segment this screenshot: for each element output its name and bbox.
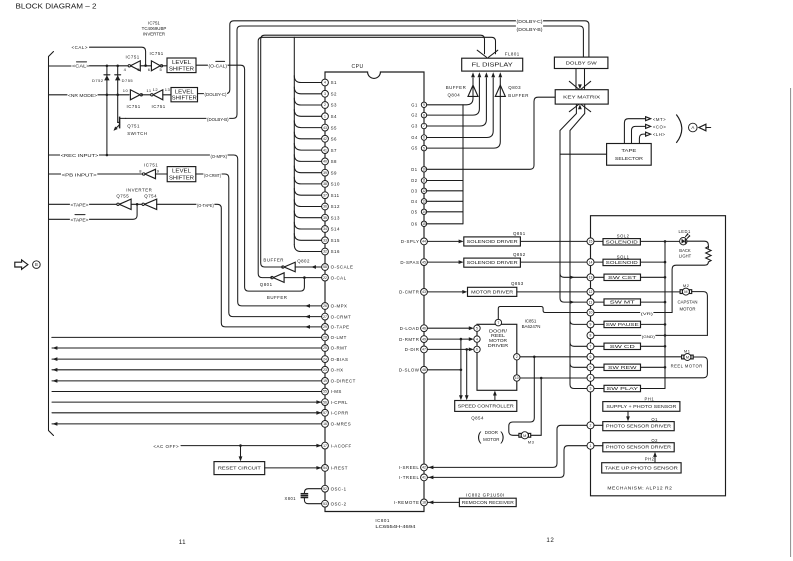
- pin S1: [322, 79, 329, 86]
- net label O-CRMT: [203, 171, 221, 178]
- svg-text:52: 52: [323, 487, 327, 491]
- svg-text:25: 25: [323, 346, 327, 350]
- arrow into solenoid driver 1: [459, 240, 464, 244]
- pin S11: [322, 192, 329, 199]
- wire pin1 to Q2: [594, 445, 603, 447]
- svg-text:IC802 GP1U50I: IC802 GP1U50I: [466, 493, 505, 498]
- mech pin 14: [587, 259, 594, 266]
- svg-text:3: 3: [137, 67, 140, 72]
- svg-text:S8: S8: [331, 159, 337, 164]
- net TAPE wire: [49, 203, 119, 205]
- svg-text:FL801: FL801: [505, 51, 520, 56]
- wire inv2 to level shifter: [162, 65, 167, 67]
- wire inv1 to node: [140, 65, 151, 67]
- svg-text:SW CD: SW CD: [610, 344, 635, 349]
- junction D-DIR speed: [465, 348, 468, 351]
- svg-text:LEVEL: LEVEL: [172, 60, 191, 66]
- junction SW CD common: [664, 345, 667, 348]
- svg-text:SOLENOID: SOLENOID: [606, 239, 638, 244]
- svg-text:(DOLBY-B): (DOLBY-B): [517, 27, 544, 32]
- svg-text:(O-TAPE): (O-TAPE): [197, 203, 214, 208]
- svg-text:D752: D752: [92, 78, 104, 83]
- wire D4 stub: [427, 200, 463, 202]
- svg-text:6: 6: [590, 355, 592, 359]
- svg-text:44: 44: [422, 240, 426, 244]
- wire SW CD to common: [641, 345, 666, 347]
- svg-text:PH1: PH1: [645, 396, 655, 401]
- diode D755: [115, 75, 121, 81]
- wire S12 bus stub: [294, 200, 321, 207]
- svg-text:47: 47: [422, 348, 426, 352]
- svg-text:Q751: Q751: [127, 123, 140, 128]
- svg-text:43: 43: [422, 290, 426, 294]
- svg-text:7: 7: [497, 321, 499, 325]
- arrow I-SREEL in: [428, 466, 433, 470]
- buffer Q804: [468, 85, 478, 96]
- wire G/D bus vertical: [462, 105, 464, 224]
- arrow G5 into FL display: [498, 72, 502, 77]
- svg-text:Q854: Q854: [471, 415, 484, 420]
- arrow O-CRMT out: [305, 315, 310, 319]
- net label GND: [641, 332, 655, 339]
- svg-text:14: 14: [589, 260, 593, 264]
- net label O-MPX: [210, 152, 228, 159]
- arrow MT: [646, 117, 651, 121]
- wire left bus row y391.5: [52, 391, 322, 393]
- junction SOL1 supply: [664, 261, 667, 264]
- wire D-SLOW to speed controller: [427, 369, 461, 371]
- mech pin 9: [587, 321, 594, 328]
- pin D1: [421, 167, 426, 172]
- svg-text:O-TAPE: O-TAPE: [331, 325, 350, 330]
- pin S3: [322, 102, 329, 109]
- svg-text:5: 5: [423, 146, 425, 150]
- mech pin 10: [587, 309, 594, 316]
- svg-text:<TAPE>: <TAPE>: [71, 203, 89, 208]
- wire PH1 to Q1: [627, 411, 629, 417]
- mech pin 1: [587, 442, 594, 449]
- svg-text:O-LMT: O-LMT: [331, 335, 347, 340]
- svg-text:REMOCON RECEIVER: REMOCON RECEIVER: [462, 500, 514, 505]
- svg-text:IC751: IC751: [152, 104, 166, 109]
- svg-text:I-CPRL: I-CPRL: [331, 400, 348, 405]
- remocon receiver IC802: [459, 498, 516, 506]
- off-page connector arrow A: [699, 124, 711, 131]
- net O-TAPE wire: [157, 204, 322, 327]
- wire S7 bus stub: [294, 143, 321, 150]
- svg-text:B: B: [35, 262, 38, 267]
- svg-text:BUFFER: BUFFER: [263, 257, 284, 262]
- svg-text:S15: S15: [331, 238, 340, 243]
- svg-text:S12: S12: [331, 204, 340, 209]
- wire O-SCALE to buffer: [295, 266, 321, 268]
- svg-text:LEVEL: LEVEL: [172, 169, 191, 175]
- pin O-LMT: [322, 334, 329, 341]
- wire IC851 pin7 to mech pin10: [498, 307, 587, 320]
- svg-text:D3: D3: [411, 188, 417, 193]
- svg-text:12: 12: [546, 537, 554, 544]
- bus arrow wing left: [477, 50, 487, 57]
- wire SW PLAY to common: [641, 388, 666, 390]
- svg-text:SW PAUSE: SW PAUSE: [606, 322, 639, 327]
- svg-text:SOL1: SOL1: [617, 254, 630, 259]
- svg-text:BLOCK DIAGRAM – 2: BLOCK DIAGRAM – 2: [16, 2, 97, 11]
- svg-text:D1: D1: [411, 167, 417, 172]
- wire key bus to tape selector: [560, 153, 607, 155]
- node B circle: [33, 261, 41, 269]
- pin I-REST: [322, 465, 329, 472]
- junction AC OFF reset: [239, 444, 242, 447]
- svg-text:29: 29: [323, 325, 327, 329]
- IC851 pin 10: [514, 375, 520, 381]
- wire to reset circuit: [240, 446, 242, 457]
- pin D2: [421, 178, 426, 183]
- svg-text:SHIFTER: SHIFTER: [169, 175, 194, 181]
- wire remocon to I-REMOTE: [428, 501, 459, 503]
- arrow I-TREEL in: [428, 476, 433, 480]
- svg-text:D4: D4: [411, 199, 417, 204]
- svg-text:S16: S16: [331, 249, 340, 254]
- svg-text:LEVEL: LEVEL: [175, 89, 194, 95]
- wire pin9 to SW PAUSE: [594, 323, 604, 325]
- wire pin5 to SW REW: [594, 366, 604, 368]
- pin D6: [421, 221, 426, 226]
- svg-text:2: 2: [590, 424, 592, 428]
- wire G1 riser: [427, 78, 473, 105]
- arrow into solenoid driver 2: [459, 260, 464, 264]
- svg-text:1: 1: [590, 444, 592, 448]
- junction SW PAUSE common: [664, 323, 667, 326]
- wire dolby sw to key matrix b: [584, 69, 586, 90]
- svg-text:35: 35: [323, 216, 327, 220]
- svg-text:MOTOR: MOTOR: [680, 307, 696, 312]
- backlight caption: [679, 248, 692, 259]
- FL display FL801: [462, 58, 523, 71]
- wire key scan B branch pin5: [570, 363, 587, 367]
- svg-text:SW REW: SW REW: [608, 365, 637, 370]
- arrow into motor driver: [462, 290, 467, 294]
- svg-text:D755: D755: [122, 78, 134, 83]
- scan edge line: [790, 88, 792, 557]
- svg-text:46: 46: [422, 326, 426, 330]
- svg-text:BUFFER: BUFFER: [446, 85, 467, 90]
- svg-text:<PB INPUT>: <PB INPUT>: [62, 173, 98, 178]
- pin O-CAL: [322, 274, 329, 281]
- wire tape selector MT: [624, 119, 645, 144]
- svg-text:(O-CRMT): (O-CRMT): [204, 173, 222, 178]
- arrow CO: [646, 124, 651, 128]
- wire S10 bus stub: [294, 177, 321, 184]
- svg-text:DOOR: DOOR: [485, 430, 498, 435]
- pin O-MRES: [322, 421, 329, 428]
- svg-text:53: 53: [323, 502, 327, 506]
- wire S15 bus stub: [294, 234, 321, 241]
- photo sensor driver Q1: [603, 422, 674, 431]
- svg-text:G4: G4: [411, 135, 418, 140]
- svg-text:54: 54: [323, 466, 327, 470]
- svg-text:M: M: [684, 289, 687, 294]
- wire solenoid driver 1 to pin15: [520, 240, 587, 242]
- arrow I-CPRR in: [316, 411, 321, 415]
- wire S6 bus stub: [294, 132, 321, 139]
- svg-text:G1: G1: [411, 102, 418, 107]
- mechanism enclosure: [591, 216, 726, 496]
- svg-text:1: 1: [324, 115, 326, 119]
- mech pin 8: [587, 332, 594, 339]
- svg-text:A: A: [691, 125, 694, 130]
- pin I-SREEL: [421, 464, 428, 471]
- junction REC D752: [106, 154, 109, 157]
- pin D-CMTR: [421, 289, 428, 296]
- net label VR: [640, 309, 653, 316]
- svg-text:<TAPE>: <TAPE>: [71, 217, 89, 222]
- svg-text:M1: M1: [684, 349, 691, 354]
- pin I-TREEL: [421, 474, 428, 481]
- pin I-MS: [322, 388, 329, 395]
- svg-text:MOTOR DRIVER: MOTOR DRIVER: [471, 289, 513, 294]
- wire pin12 to capstan: [594, 291, 680, 293]
- svg-text:10: 10: [123, 88, 129, 93]
- svg-text:12: 12: [422, 189, 426, 193]
- svg-text:3: 3: [590, 387, 592, 391]
- wire inv3 to inv4: [141, 94, 151, 96]
- svg-text:D5: D5: [411, 209, 417, 214]
- wire SOL2 to LED1: [640, 240, 679, 242]
- svg-text:42: 42: [323, 137, 327, 141]
- arrow scan pin13: [570, 275, 575, 279]
- svg-text:O-RMT: O-RMT: [331, 346, 348, 351]
- IC851 pin 4: [474, 336, 480, 342]
- svg-text:34: 34: [323, 227, 327, 231]
- pin O-RMT: [322, 345, 329, 352]
- svg-text:SOLENOID DRIVER: SOLENOID DRIVER: [467, 260, 518, 265]
- wire left bus row y369.8: [52, 369, 322, 371]
- node label CAL-bar: [71, 61, 90, 69]
- svg-text:<AC OFF>: <AC OFF>: [153, 444, 179, 449]
- wire IC851 pin10 to mech pin4: [520, 377, 587, 379]
- pin S4: [322, 113, 329, 120]
- mech pin 5: [587, 364, 594, 371]
- pin O-MPX: [322, 303, 329, 310]
- node A circle: [689, 123, 698, 132]
- pin O-TAPE: [322, 324, 329, 331]
- arrow left row y380.9: [52, 379, 57, 383]
- svg-text:I-ACOFF: I-ACOFF: [331, 443, 352, 448]
- net label O-CAL-bar: [208, 60, 228, 68]
- svg-text:23: 23: [323, 368, 327, 372]
- switch SW PLAY: [604, 385, 641, 391]
- pin D3: [421, 188, 426, 193]
- wire NR MODE row: [49, 94, 130, 96]
- wire left bus row y359.1: [52, 358, 322, 360]
- svg-text:MECHANISM: ALP12 R2: MECHANISM: ALP12 R2: [607, 485, 672, 490]
- arrow I-REST in: [316, 466, 321, 470]
- svg-text:CPU: CPU: [352, 64, 364, 70]
- svg-text:(O-CAL): (O-CAL): [209, 64, 228, 69]
- wire S5 bus stub: [294, 121, 321, 128]
- svg-text:IC751: IC751: [150, 51, 164, 56]
- svg-text:DRIVER: DRIVER: [488, 343, 508, 348]
- svg-text:BUFFER: BUFFER: [267, 295, 288, 300]
- arrow G3 into FL display: [485, 72, 489, 77]
- wire speed controller to IC851: [494, 396, 496, 401]
- inverter IC751 4/6 (pins 12-13): [153, 90, 163, 100]
- wire speed in 1: [460, 339, 462, 396]
- svg-text:D-DIR: D-DIR: [405, 347, 420, 352]
- svg-text:11: 11: [589, 300, 593, 304]
- svg-text:17: 17: [323, 444, 327, 448]
- IC851 inner text: [488, 328, 508, 347]
- svg-text:(O-MPX): (O-MPX): [211, 154, 228, 159]
- wire S1 bus stub: [294, 76, 321, 83]
- net PB INPUT wire: [49, 173, 144, 175]
- wire solenoid driver 2 to pin14: [520, 261, 587, 263]
- svg-text:G2: G2: [411, 113, 418, 118]
- arrow scan pin11: [570, 300, 575, 304]
- arrow into Q1: [626, 416, 630, 421]
- svg-text:4: 4: [476, 337, 478, 341]
- arrow into reset circuit: [239, 456, 243, 461]
- svg-text:2: 2: [516, 355, 518, 359]
- wire D2 stub: [427, 180, 463, 182]
- wire OSC-2 stub: [304, 498, 321, 504]
- svg-text:36: 36: [323, 205, 327, 209]
- IC851 outline: [477, 324, 517, 390]
- wire D6 stub: [427, 223, 463, 225]
- wire S segment bus vertical: [293, 37, 295, 244]
- wire Q801 output up to display bus: [258, 37, 495, 277]
- svg-text:D-SPLY: D-SPLY: [401, 239, 420, 244]
- arrow left row y359.1: [52, 357, 57, 361]
- net GND wire: [594, 334, 707, 336]
- wire SW PAUSE to common: [641, 323, 666, 325]
- pin D5: [421, 209, 426, 214]
- svg-text:M3: M3: [528, 440, 535, 445]
- svg-text:6: 6: [423, 136, 425, 140]
- svg-text:BUFFER: BUFFER: [508, 93, 529, 98]
- level shifter U1 (CAL): [167, 58, 196, 73]
- node label REC INPUT: [60, 150, 99, 158]
- wire D3 stub: [427, 190, 463, 192]
- solenoid driver Q852: [464, 258, 521, 267]
- wire key scan A branch pin13: [560, 273, 587, 277]
- svg-text:Q802: Q802: [297, 258, 310, 263]
- svg-text:8: 8: [423, 113, 425, 117]
- svg-text:5: 5: [476, 326, 478, 330]
- junction CALB D755: [116, 65, 119, 68]
- svg-text:D6: D6: [411, 221, 417, 226]
- wire OSC-1 stub: [304, 489, 321, 494]
- pin O-DIRECT: [322, 378, 329, 385]
- wire G2 riser: [427, 78, 480, 115]
- wire D755 branch: [118, 66, 120, 123]
- svg-text:18: 18: [422, 501, 426, 505]
- svg-text:IC751: IC751: [148, 21, 160, 26]
- svg-text:5: 5: [590, 366, 592, 370]
- svg-text:10: 10: [515, 376, 519, 380]
- wire pin15 to SOL2: [594, 240, 603, 242]
- pin I-ACOFF: [322, 442, 329, 449]
- svg-text:8: 8: [590, 334, 592, 338]
- wire reel motor to pin4: [594, 357, 707, 378]
- pin D-LOAD: [421, 325, 428, 332]
- buffer Q803: [495, 85, 505, 96]
- svg-text:9: 9: [423, 103, 425, 107]
- svg-text:LED1: LED1: [679, 229, 691, 234]
- svg-text:TAKE UP:PHOTO SENSOR: TAKE UP:PHOTO SENSOR: [605, 465, 678, 470]
- IC801 part number label: [375, 518, 416, 529]
- net VR wire: [594, 312, 672, 314]
- svg-text:O-CAL: O-CAL: [331, 275, 347, 280]
- junction reel pin2 node: [533, 356, 536, 359]
- svg-text:D-SLOW: D-SLOW: [399, 368, 420, 373]
- pin G3: [421, 123, 426, 128]
- wire D-SPAS to driver: [427, 261, 458, 263]
- svg-text:40: 40: [323, 160, 327, 164]
- door motor caption: [477, 430, 504, 444]
- pin S5: [322, 124, 329, 131]
- inverter Q755: [119, 199, 131, 209]
- pin D-SPAS: [421, 259, 428, 266]
- solenoid SOL2: [603, 239, 640, 245]
- node label NR MODE: [67, 90, 97, 98]
- pin S16: [322, 248, 329, 255]
- svg-text:PH2: PH2: [645, 457, 655, 462]
- IC851 pin 7: [495, 319, 502, 326]
- svg-text:12: 12: [153, 87, 159, 92]
- pin O-BIAS: [322, 356, 329, 363]
- wire key scan A: [560, 104, 587, 302]
- wire IC851 pin2 to mech pin6: [520, 356, 587, 358]
- pin D-DIR: [421, 346, 428, 353]
- wire motor driver to pin12: [517, 291, 587, 293]
- wire D5 stub: [427, 211, 463, 213]
- wire door motor left: [509, 357, 535, 436]
- key matrix: [555, 90, 608, 104]
- wire D-RMTR to IC851: [427, 338, 469, 340]
- junction NR D755: [116, 94, 119, 97]
- mech pin 2: [587, 422, 594, 429]
- svg-text:SOLENOID DRIVER: SOLENOID DRIVER: [467, 239, 518, 244]
- bracket for A connector: [676, 115, 682, 143]
- net O-CRMT wire: [196, 174, 322, 317]
- switch SW CST: [604, 274, 641, 280]
- wire resistor to VR line: [672, 262, 708, 313]
- wire left bus row y412.8: [52, 412, 322, 414]
- svg-text:IC751: IC751: [127, 104, 141, 109]
- solenoid SOL1: [603, 259, 640, 265]
- wire S14 bus stub: [294, 222, 321, 229]
- wire D-SPLY to driver: [427, 240, 458, 242]
- wire left bus row y337.4: [52, 336, 322, 338]
- svg-text:OSC-2: OSC-2: [331, 501, 347, 506]
- svg-text:Q851: Q851: [513, 231, 526, 236]
- svg-text:4: 4: [124, 67, 127, 72]
- wire inv5 to level shifter 3: [156, 173, 168, 175]
- junction gnd common: [664, 334, 667, 337]
- switch SW CD: [604, 343, 641, 349]
- switch SW REW: [604, 364, 641, 370]
- pin I-CPRR: [322, 409, 329, 416]
- wire door motor right: [531, 378, 541, 435]
- svg-text:OSC-1: OSC-1: [331, 486, 347, 491]
- svg-text:48: 48: [422, 368, 426, 372]
- svg-text:41: 41: [323, 148, 327, 152]
- wire LED to resistor: [687, 241, 708, 248]
- wire CALB label to inverter: [90, 65, 129, 67]
- inverter IC751 1/6 (pins 4-3): [131, 61, 141, 71]
- svg-text:PHOTO SENSOR DRIVER: PHOTO SENSOR DRIVER: [606, 445, 671, 450]
